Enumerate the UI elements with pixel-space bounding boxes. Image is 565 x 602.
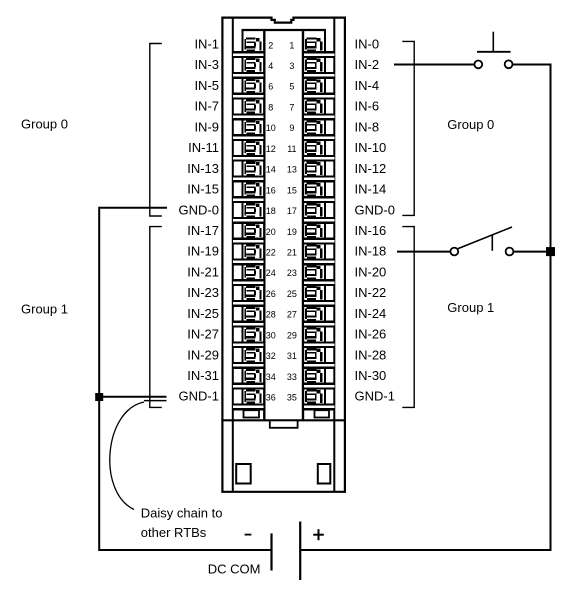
terminal screws pins 32/31 (row 16)	[244, 348, 322, 362]
svg-text:IN-13: IN-13	[187, 161, 219, 176]
RTB inner wall left	[232, 18, 234, 492]
svg-text:IN-21: IN-21	[187, 264, 219, 279]
svg-text:IN-31: IN-31	[187, 368, 219, 383]
terminal screws pins 22/21 (row 11)	[244, 245, 322, 259]
svg-text:IN-2: IN-2	[355, 57, 380, 72]
svg-text:28: 28	[266, 310, 276, 320]
svg-text:IN-25: IN-25	[187, 306, 219, 321]
pin numbers 36 and 35	[266, 393, 297, 403]
svg-text:6: 6	[268, 82, 273, 92]
svg-text:IN-4: IN-4	[355, 78, 380, 93]
svg-text:25: 25	[287, 289, 297, 299]
junction node left bus / GND-1	[95, 393, 103, 401]
battery positive plate	[299, 522, 301, 581]
terminal screws pins 26/25 (row 13)	[244, 286, 322, 300]
pin numbers 4 and 3	[268, 61, 294, 71]
svg-text:13: 13	[287, 165, 297, 175]
svg-text:IN-22: IN-22	[355, 285, 387, 300]
wire bottom right to battery positive	[300, 549, 552, 551]
terminal columns header line	[242, 29, 327, 31]
svg-text:GND-0: GND-0	[179, 202, 219, 217]
svg-text:7: 7	[289, 103, 294, 113]
svg-text:26: 26	[266, 289, 276, 299]
terminal screws pins 16/15 (row 8)	[244, 182, 322, 196]
terminal screws pins 18/17 (row 9)	[244, 203, 322, 217]
svg-text:18: 18	[266, 206, 276, 216]
svg-text:Group 0: Group 0	[21, 117, 68, 132]
group 0 bracket left	[150, 44, 162, 217]
polarity minus sign	[245, 534, 252, 536]
terminal screws pins 34/33 (row 17)	[244, 369, 322, 383]
svg-text:21: 21	[287, 248, 297, 258]
svg-text:IN-26: IN-26	[355, 327, 387, 342]
mounting foot left	[236, 464, 251, 484]
junction node right bus / IN-18	[546, 247, 555, 256]
group 1 bracket right	[402, 227, 414, 408]
svg-text:Group 1: Group 1	[21, 302, 68, 317]
group 1 bracket left	[150, 227, 162, 408]
svg-text:20: 20	[266, 227, 276, 237]
terminal screws pins 12/11 (row 6)	[244, 141, 322, 155]
svg-text:11: 11	[287, 144, 296, 154]
pin numbers 16 and 15	[266, 185, 297, 195]
terminal screws pins 8/7 (row 4)	[244, 100, 322, 114]
svg-text:IN-0: IN-0	[355, 37, 380, 52]
push button contact right	[505, 60, 513, 68]
center channel right edge	[302, 29, 304, 420]
svg-text:Group 1: Group 1	[447, 300, 494, 315]
svg-text:2: 2	[268, 40, 273, 50]
pin numbers 2 and 1	[268, 40, 294, 50]
svg-text:IN-8: IN-8	[355, 119, 380, 134]
terminal block RTB body outline with top notch	[222, 18, 345, 492]
daisy chain leader arc	[110, 402, 144, 510]
svg-text:9: 9	[289, 123, 294, 133]
wire bottom left to battery negative	[99, 549, 271, 551]
push button contact left	[474, 61, 482, 69]
svg-text:IN-24: IN-24	[355, 306, 387, 321]
svg-text:GND-1: GND-1	[179, 389, 219, 404]
svg-text:4: 4	[268, 61, 273, 71]
svg-text:IN-10: IN-10	[355, 140, 387, 155]
svg-text:IN-11: IN-11	[188, 140, 219, 155]
RTB lower housing separator line	[221, 419, 345, 421]
wire clamp bars right column	[304, 51, 334, 410]
terminal screws pins 28/27 (row 14)	[244, 307, 322, 321]
svg-text:GND-1: GND-1	[355, 389, 395, 404]
terminal screws pins 36/35 (row 18)	[244, 390, 322, 404]
mounting foot right	[318, 464, 331, 484]
pin numbers 20 and 19	[266, 227, 297, 237]
svg-text:IN-27: IN-27	[187, 327, 219, 342]
wire push button to right bus	[513, 64, 552, 66]
wire GND-1 daisy-chain stub	[144, 400, 167, 402]
terminal screws pins 10/9 (row 5)	[244, 120, 322, 134]
push button actuator stem	[492, 32, 494, 52]
terminal screws pins 2/1 (row 1)	[244, 37, 322, 51]
svg-text:IN-29: IN-29	[187, 347, 219, 362]
switch contact right	[506, 248, 514, 256]
pin numbers 32 and 31	[266, 351, 297, 361]
svg-text:30: 30	[266, 330, 276, 340]
wire GND-1 to left bus	[99, 396, 166, 398]
svg-text:31: 31	[287, 351, 297, 361]
wire switch to right bus	[514, 251, 551, 253]
left terminal column outer edge	[242, 29, 244, 410]
pin numbers 34 and 33	[266, 372, 297, 382]
svg-text:32: 32	[266, 351, 276, 361]
terminal screws pins 6/5 (row 3)	[244, 79, 322, 93]
wire IN-18 to switch	[397, 251, 451, 253]
wire IN-2 to push button	[394, 64, 474, 66]
svg-text:24: 24	[266, 268, 276, 278]
pin numbers 10 and 9	[266, 123, 295, 133]
svg-text:23: 23	[287, 268, 297, 278]
pin numbers 18 and 17	[266, 206, 297, 216]
svg-text:other RTBs: other RTBs	[141, 525, 207, 540]
keying tab below separator	[270, 420, 298, 427]
svg-text:IN-14: IN-14	[355, 182, 387, 197]
switch contact left	[450, 248, 458, 256]
terminal screws pins 14/13 (row 7)	[244, 162, 322, 176]
svg-text:22: 22	[266, 248, 276, 258]
label Daisy chain to other RTBs	[141, 505, 223, 540]
svg-text:19: 19	[287, 227, 297, 237]
svg-text:34: 34	[266, 372, 276, 382]
svg-text:IN-1: IN-1	[194, 37, 219, 52]
pin numbers 8 and 7	[268, 103, 294, 113]
svg-text:12: 12	[266, 144, 276, 154]
terminal screws pins 24/23 (row 12)	[244, 265, 322, 279]
last-row retainer tab left	[244, 410, 260, 417]
svg-text:15: 15	[287, 185, 297, 195]
pin numbers 26 and 25	[266, 289, 297, 299]
wire right vertical bus (+)	[550, 64, 552, 552]
pin numbers 12 and 11	[266, 144, 297, 154]
svg-text:14: 14	[266, 165, 276, 175]
center channel left edge	[263, 29, 265, 420]
wire clamp bars left column	[233, 51, 263, 410]
svg-text:17: 17	[287, 206, 297, 216]
svg-text:IN-16: IN-16	[355, 223, 387, 238]
svg-text:33: 33	[287, 372, 297, 382]
svg-text:1: 1	[289, 40, 294, 50]
svg-text:IN-23: IN-23	[187, 285, 219, 300]
pin numbers 14 and 13	[266, 165, 297, 175]
push button bar	[477, 51, 511, 53]
pin numbers 28 and 27	[266, 310, 297, 320]
svg-text:Group 0: Group 0	[447, 117, 494, 132]
svg-text:35: 35	[287, 393, 297, 403]
pin numbers 24 and 23	[266, 268, 297, 278]
pin numbers 22 and 21	[266, 248, 297, 258]
wire left vertical bus (DC COM return)	[98, 207, 100, 551]
svg-text:IN-30: IN-30	[355, 368, 387, 383]
svg-text:10: 10	[266, 123, 276, 133]
svg-text:IN-12: IN-12	[355, 161, 387, 176]
svg-text:29: 29	[287, 330, 297, 340]
terminal screws pins 20/19 (row 10)	[244, 224, 322, 238]
svg-text:5: 5	[289, 82, 294, 92]
svg-text:IN-9: IN-9	[194, 119, 219, 134]
svg-text:3: 3	[289, 61, 294, 71]
svg-text:IN-17: IN-17	[187, 223, 219, 238]
svg-text:IN-19: IN-19	[187, 244, 219, 259]
terminal screws pins 30/29 (row 15)	[244, 328, 322, 342]
svg-text:DC COM: DC COM	[208, 561, 261, 576]
group 0 bracket right	[402, 41, 414, 215]
svg-text:IN-6: IN-6	[355, 99, 380, 114]
switch lever	[458, 227, 512, 249]
pin numbers 6 and 5	[268, 82, 294, 92]
pin numbers 30 and 29	[266, 330, 297, 340]
svg-text:36: 36	[266, 393, 276, 403]
svg-text:27: 27	[287, 310, 297, 320]
svg-text:GND-0: GND-0	[355, 202, 395, 217]
svg-text:IN-28: IN-28	[355, 347, 387, 362]
RTB inner wall right	[333, 18, 335, 492]
svg-text:IN-3: IN-3	[194, 57, 219, 72]
terminal screws pins 4/3 (row 2)	[244, 58, 322, 72]
svg-text:IN-15: IN-15	[187, 182, 219, 197]
right terminal column outer edge	[324, 29, 326, 410]
polarity plus sign	[313, 529, 324, 540]
svg-text:IN-18: IN-18	[355, 244, 387, 259]
battery negative plate	[270, 533, 272, 570]
switch actuator leg	[491, 235, 493, 251]
svg-text:Daisy chain to: Daisy chain to	[141, 505, 223, 520]
last-row retainer tab right	[315, 410, 330, 417]
wire GND-0 to left bus	[99, 207, 167, 209]
svg-text:IN-5: IN-5	[194, 78, 219, 93]
svg-text:8: 8	[268, 103, 273, 113]
svg-text:IN-7: IN-7	[194, 99, 219, 114]
svg-text:IN-20: IN-20	[355, 264, 387, 279]
svg-text:16: 16	[266, 185, 276, 195]
